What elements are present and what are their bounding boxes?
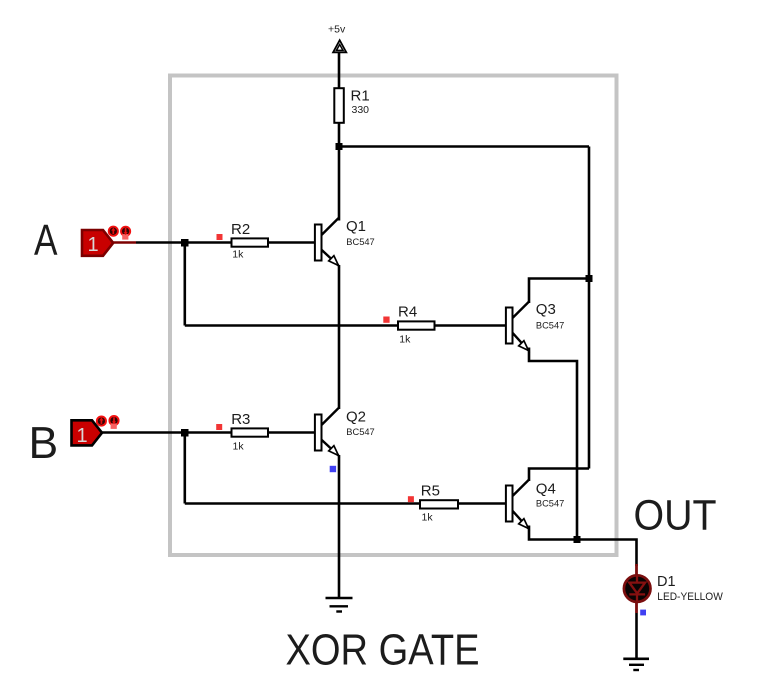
wire A branch to R4 (185, 324, 398, 327)
resistor R5 (420, 500, 458, 508)
wire node to Q1 collector (338, 147, 341, 221)
svg-text:Q1: Q1 (346, 218, 366, 235)
wire +5v to R1 (338, 52, 341, 88)
svg-text:Q3: Q3 (536, 301, 556, 318)
svg-text:BC547: BC547 (536, 499, 564, 509)
wire top horizontal node to right rail (339, 145, 589, 148)
resistor R2 (232, 238, 269, 246)
svg-text:LED-YELLOW: LED-YELLOW (657, 591, 723, 603)
svg-text:BC547: BC547 (346, 427, 374, 437)
wire Q4 emitter to OUT (529, 526, 637, 567)
wire A branch down (184, 243, 187, 326)
node junction A branch (181, 239, 189, 247)
transistor Q3 (506, 302, 529, 351)
svg-text:BC547: BC547 (346, 237, 374, 247)
wire R4 to Q3 base (435, 324, 507, 327)
svg-text:R1: R1 (351, 88, 370, 105)
wire R3 to Q2 base (268, 431, 315, 434)
svg-text:A: A (34, 217, 58, 265)
wire LED to ground (635, 613, 638, 658)
toggle button up (B) (97, 416, 119, 429)
svg-text:+5v: +5v (328, 24, 346, 36)
transistor Q4 (506, 480, 529, 529)
state square R4 (red) (383, 317, 389, 323)
svg-text:1: 1 (88, 234, 99, 256)
node junction B branch (181, 429, 189, 437)
svg-text:330: 330 (352, 104, 370, 116)
node junction Q3 emitter / OUT (574, 536, 581, 543)
border frame (gray sub-circuit box) (170, 76, 617, 556)
transistor Q2 (315, 408, 339, 456)
svg-text:Q2: Q2 (346, 409, 366, 426)
svg-text:Q4: Q4 (536, 480, 556, 497)
input pin A terminal (82, 230, 113, 256)
wire B to R3 (101, 431, 232, 434)
svg-text:R5: R5 (421, 483, 440, 500)
ground (right) (623, 659, 649, 670)
wire LED anode lead (red) (635, 564, 638, 576)
wire Q4 collector to rail (529, 469, 589, 482)
state square R2 (red) (217, 234, 223, 240)
wire right vertical rail (588, 147, 591, 469)
svg-text:BC547: BC547 (536, 321, 564, 331)
wire Q1 emitter to Q2 collector (338, 265, 341, 409)
LED D1 (624, 575, 651, 602)
wire Q3 collector to rail (529, 279, 589, 304)
ground (center) (326, 598, 353, 612)
svg-text:OUT: OUT (634, 493, 717, 540)
state square R5 (red) (408, 496, 414, 502)
svg-text:R2: R2 (231, 221, 250, 238)
node junction R1/Q1/rail (336, 143, 343, 150)
svg-text:XOR GATE: XOR GATE (286, 627, 480, 675)
node junction Q3 collector / rail (586, 275, 593, 282)
svg-text:R3: R3 (231, 411, 250, 428)
wire A to R2 (136, 241, 232, 244)
wire R5 to Q4 base (458, 502, 507, 505)
resistor R3 (232, 428, 269, 436)
state square Q2 emitter (blue) (330, 466, 336, 472)
svg-text:1k: 1k (233, 441, 245, 453)
svg-text:B: B (29, 419, 59, 468)
wire LED cathode lead (red) (635, 601, 638, 613)
wire Q2 emitter to ground (338, 455, 341, 597)
svg-text:1: 1 (77, 425, 88, 447)
toggle button up (A) (109, 227, 130, 240)
input pin B terminal (72, 420, 103, 447)
wire R1 to node (338, 124, 341, 149)
transistor Q1 (315, 218, 339, 266)
wire A pin lead (red) (112, 241, 136, 244)
wire R2 to Q1 base (268, 241, 315, 244)
state square R3 (red) (216, 424, 222, 430)
wire Q3 emitter down (529, 348, 577, 541)
svg-text:R4: R4 (398, 304, 417, 321)
resistor R1 (334, 88, 344, 123)
wire B branch down (184, 433, 187, 504)
resistor R4 (398, 321, 435, 329)
wire B branch to R5 (185, 502, 420, 505)
state square D1 (blue) (640, 610, 646, 616)
power symbol +5v arrow (333, 40, 346, 52)
svg-text:1k: 1k (422, 512, 434, 524)
svg-text:1k: 1k (232, 249, 244, 261)
svg-text:D1: D1 (657, 574, 676, 590)
svg-text:1k: 1k (399, 334, 411, 346)
